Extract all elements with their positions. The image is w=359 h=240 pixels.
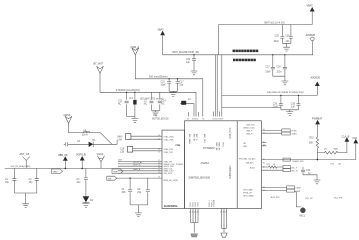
svg-text:NC: NC	[144, 103, 148, 105]
svg-text:24: 24	[158, 135, 160, 137]
svg-text:XIN_32/47: XIN_32/47	[164, 173, 173, 175]
wire VBAT upper rail riser	[218, 25, 220, 55]
svg-text:C16: C16	[161, 81, 166, 83]
svg-text:42: 42	[263, 141, 265, 143]
svg-text:C25: C25	[275, 36, 280, 38]
ground G7	[286, 112, 293, 116]
svg-text:LSBM: LSBM	[295, 188, 301, 190]
label R11	[267, 164, 277, 166]
ground G4	[191, 71, 198, 75]
svg-text:28: 28	[263, 187, 265, 189]
capacitor C28	[276, 54, 287, 76]
pin numbers bottom left	[189, 212, 199, 214]
svg-text:MIC_N: MIC_N	[292, 171, 299, 173]
capacitor C27	[265, 54, 275, 76]
ground G12 filled	[191, 234, 198, 237]
pin names xtal upper	[158, 135, 180, 147]
capacitor C14	[158, 92, 167, 110]
wire pi filter bottom	[14, 193, 36, 204]
wire left rail ANT y=168.4	[5, 167, 162, 169]
svg-text:C9: C9	[137, 189, 141, 191]
svg-text:C1E: C1E	[120, 149, 125, 151]
net box USB_N	[282, 132, 297, 136]
wire gnss feed	[69, 123, 101, 132]
resistor R10	[309, 124, 319, 159]
port VBAT2 pennant	[112, 169, 123, 173]
svg-text:15p: 15p	[5, 182, 10, 184]
svg-text:20: 20	[158, 172, 160, 174]
svg-text:CLOCKPLL: CLOCKPLL	[164, 204, 179, 208]
svg-text:C14: C14	[161, 100, 166, 102]
svg-text:C26: C26	[285, 36, 290, 38]
svg-text:VGPS_B: VGPS_B	[76, 154, 86, 157]
pin stub top C	[218, 112, 220, 117]
svg-text:VBAT: VBAT	[113, 170, 119, 173]
svg-text:MA_AD1: MA_AD1	[246, 161, 254, 164]
svg-text:22p: 22p	[137, 192, 142, 194]
svg-text:NC: NC	[118, 103, 122, 105]
pin names bottom rotated	[190, 199, 216, 207]
capacitor C25	[274, 25, 285, 44]
wire xtal caps join	[130, 205, 148, 213]
svg-text:35: 35	[202, 119, 204, 121]
svg-text:IOR: IOR	[353, 137, 358, 140]
svg-text:LNA: LNA	[118, 138, 123, 141]
ground G11	[314, 180, 321, 184]
ground G8	[22, 204, 29, 208]
svg-text:50Ω trace(50ohm): 50Ω trace(50ohm)	[149, 75, 168, 78]
svg-text:29: 29	[263, 190, 265, 192]
svg-text:36: 36	[263, 162, 265, 164]
svg-text:VBAT_BGA08(470nH_1R): VBAT_BGA08(470nH_1R)	[172, 51, 199, 54]
capacitor C29	[273, 95, 283, 109]
svg-text:BT_ANT: BT_ANT	[94, 63, 104, 66]
antenna ANT1 connector	[20, 153, 30, 168]
svg-text:VUSB: VUSB	[291, 131, 297, 133]
power flag VGPS	[76, 154, 86, 170]
inductor L13 dark	[126, 92, 137, 117]
svg-text:31: 31	[187, 119, 189, 121]
wire bottom right join	[222, 228, 227, 232]
inductor L3	[144, 92, 154, 110]
power flag VBAT top-left	[158, 28, 166, 35]
wire VBAT drop pin2	[216, 55, 218, 117]
svg-text:USB_OTG: USB_OTG	[230, 127, 232, 138]
crystal X2 box	[118, 134, 131, 142]
capacitor C11 xtal	[137, 178, 150, 205]
ground G5	[283, 47, 290, 51]
capacitor C26	[285, 25, 293, 44]
pin stubs nc rows	[243, 141, 267, 148]
wire l-c join	[151, 111, 159, 113]
svg-text:47: 47	[225, 212, 227, 214]
svg-text:21: 21	[158, 176, 160, 178]
svg-text:104: 104	[286, 41, 291, 43]
svg-text:C12: C12	[118, 100, 123, 102]
svg-text:USB_N: USB_N	[246, 133, 253, 135]
net box PWRKEY	[283, 158, 304, 163]
svg-text:AG01: AG01	[250, 166, 255, 169]
svg-text:MIC1: MIC1	[300, 216, 306, 218]
svg-text:XRST_B: XRST_B	[133, 165, 141, 167]
svg-text:VBAT: VBAT	[53, 170, 59, 173]
pin names pwr rows inside	[239, 157, 265, 169]
svg-text:ANT_D: ANT_D	[195, 134, 198, 141]
ground G13 open	[221, 233, 227, 237]
junction pwk	[317, 159, 319, 161]
wire vddext row y=152.2	[317, 142, 347, 154]
pin names usb inside	[243, 124, 265, 135]
net box MIC_P	[283, 166, 298, 170]
svg-text:MOT08_BGA18: MOT08_BGA18	[152, 117, 169, 120]
note text line1	[233, 50, 259, 53]
svg-text:POWER: POWER	[203, 146, 215, 150]
svg-text:L4: L4	[188, 99, 191, 101]
wire VBAT drop pin1	[215, 55, 217, 117]
svg-text:LTE: LTE	[153, 115, 158, 117]
svg-text:59: 59	[221, 119, 223, 121]
wire avdd28 rail y=95.4	[222, 86, 317, 95]
wire lte cap join	[127, 117, 135, 119]
svg-text:26: 26	[158, 149, 160, 151]
svg-text:L13: L13	[129, 98, 134, 100]
capacitor C10 xtal	[122, 177, 133, 204]
pin stubs bottom left group	[191, 208, 199, 222]
svg-text:C20: C20	[186, 59, 191, 61]
svg-text:XTAL_OW0: XTAL_OW0	[164, 135, 174, 138]
pin stub top A	[188, 112, 198, 117]
svg-text:XTAL_12B: XTAL_12B	[164, 151, 174, 154]
svg-text:20: 20	[263, 129, 265, 131]
svg-text:C30: C30	[291, 103, 296, 105]
svg-text:L2B: L2B	[120, 152, 125, 154]
svg-text:AG2_SPK: AG2_SPK	[271, 196, 280, 199]
capacitor C4 TVS branch	[77, 168, 88, 196]
svg-text:35: 35	[263, 159, 265, 161]
svg-text:VBAT: VBAT	[307, 5, 314, 8]
svg-text:ANT_1/8: ANT_1/8	[20, 153, 30, 156]
wire mic row	[262, 166, 284, 168]
svg-text:ANT_MAIN: ANT_MAIN	[188, 134, 191, 144]
wires clock rows	[118, 162, 162, 174]
svg-text:100n: 100n	[276, 72, 282, 74]
wire mic row N	[262, 169, 284, 171]
wire VBAT drop pin3	[221, 55, 223, 117]
wire gnss diagonal	[100, 133, 112, 145]
svg-text:33pF: 33pF	[161, 84, 167, 86]
clock pin names inside	[164, 160, 184, 175]
label R13 0R	[331, 164, 342, 166]
diode D2 TVS	[83, 196, 94, 202]
wire gnss lower y=144.3	[64, 140, 117, 144]
resistor labels 4K7	[324, 149, 339, 151]
svg-text:D1: D1	[93, 140, 97, 142]
svg-text:PWRBAT: PWRBAT	[312, 117, 323, 120]
antenna ANT3 BT/WIFI	[94, 63, 104, 74]
svg-text:X1: X1	[122, 189, 126, 191]
capacitor C12	[118, 92, 129, 116]
svg-text:D2: D2	[90, 200, 94, 202]
svg-text:40: 40	[263, 166, 265, 168]
power flag VBB	[58, 154, 68, 169]
svg-text:C32: C32	[306, 170, 311, 172]
svg-text:680R: 680R	[334, 149, 339, 151]
svg-text:C17: C17	[179, 81, 184, 83]
wire c29 c30 join	[281, 106, 299, 112]
power flag VBAT top-right	[307, 5, 315, 12]
power flag PWRBAT	[312, 117, 323, 124]
svg-text:1uF: 1uF	[186, 62, 191, 64]
svg-text:MIC_P: MIC_P	[292, 167, 299, 169]
wire USB row N	[262, 132, 282, 134]
antenna ANT2 GSM	[131, 46, 140, 55]
svg-text:VBAT in(3.1V~4.3V): VBAT in(3.1V~4.3V)	[264, 21, 285, 24]
net box USB_P	[282, 129, 297, 133]
capacitor C17	[175, 78, 184, 91]
svg-text:26M: 26M	[118, 160, 122, 162]
svg-text:PGM03_4/3V: PGM03_4/3V	[292, 161, 304, 163]
ground G2	[132, 119, 139, 123]
svg-text:MHX: MHX	[118, 136, 124, 138]
clock row labels	[118, 160, 142, 171]
svg-text:R10: R10	[310, 138, 315, 140]
pi filter left leg	[5, 168, 16, 193]
svg-text:22nH: 22nH	[82, 135, 88, 137]
svg-text:GNSS: GNSS	[64, 114, 71, 117]
svg-text:15p: 15p	[29, 182, 34, 184]
pi filter right leg	[29, 168, 39, 193]
wire avdd drop	[311, 41, 313, 55]
svg-text:50Ω_RF_BGA(COAX): 50Ω_RF_BGA(COAX)	[11, 165, 31, 168]
svg-text:L3: L3	[144, 100, 147, 102]
svg-text:56K: 56K	[309, 143, 314, 145]
svg-text:10uF: 10uF	[273, 106, 279, 108]
pin names audio inside	[243, 187, 265, 198]
wire c27 c28 join	[273, 76, 285, 81]
svg-text:1K: 1K	[273, 164, 276, 166]
svg-text:USB_P: USB_P	[246, 130, 253, 132]
svg-text:NC2_SPK: NC2_SPK	[334, 197, 343, 199]
svg-text:AVDD28: AVDD28	[306, 34, 316, 37]
pin names top-right group	[215, 142, 223, 151]
svg-text:C29: C29	[273, 103, 278, 105]
svg-text:AUDIO&ADC: AUDIO&ADC	[229, 165, 232, 179]
svg-text:AW6A: AW6A	[201, 161, 211, 165]
wire bottom left join	[191, 223, 199, 233]
svg-text:C4: C4	[77, 179, 81, 181]
svg-text:1uF: 1uF	[291, 106, 296, 108]
net box LS_M	[287, 186, 301, 190]
ground G1	[170, 93, 177, 97]
net box MIC_N	[283, 169, 298, 173]
svg-text:33p: 33p	[179, 84, 184, 86]
port VBAT pennant	[52, 169, 63, 173]
diode D1	[89, 140, 97, 147]
wire audio row2	[262, 190, 287, 192]
svg-text:33uF: 33uF	[265, 72, 271, 74]
svg-text:33uF: 33uF	[274, 41, 280, 43]
svg-text:VBAT: VBAT	[158, 28, 165, 31]
svg-text:C1: C1	[5, 179, 9, 181]
svg-text:44: 44	[197, 212, 199, 214]
capacitor C3 series	[66, 141, 81, 146]
crystal X3 box	[120, 147, 133, 154]
svg-text:ANT_GPS: ANT_GPS	[203, 134, 206, 144]
capacitor C30	[291, 95, 301, 109]
wire x3 pins	[133, 149, 162, 151]
svg-text:USBN: USBN	[291, 134, 297, 136]
pin numbers top edge	[187, 119, 223, 121]
svg-text:USB: USB	[243, 146, 248, 148]
svg-text:SIM7920_BGA200: SIM7920_BGA200	[189, 175, 211, 179]
svg-text:NC: NC	[161, 103, 165, 105]
ground G10	[135, 213, 142, 217]
wire lower rail y=107.4	[222, 106, 281, 108]
ground G6	[282, 81, 289, 85]
speaker MIC1	[294, 192, 305, 218]
pin stubs bottom right group	[222, 208, 227, 228]
ferrite bead FB1	[180, 99, 194, 117]
wire BT antenna stem	[99, 73, 101, 92]
wire USB row P	[262, 129, 282, 131]
svg-text:R15_NC: R15_NC	[306, 198, 314, 200]
ground G9 bar	[82, 202, 89, 207]
pin numbers bottom right	[220, 212, 227, 214]
svg-text:(cap close to module to reduce: (cap close to module to reduce imp)	[267, 91, 304, 94]
svg-text:25: 25	[158, 139, 160, 141]
svg-text:27: 27	[158, 151, 160, 153]
svg-text:R13: R13	[331, 164, 334, 166]
svg-text:10u: 10u	[77, 182, 82, 184]
svg-text:VGG3: VGG3	[97, 153, 104, 156]
svg-text:SPKN_UP: SPKN_UP	[243, 193, 253, 195]
module U1 clock box	[162, 130, 185, 208]
svg-text:GSM_A: GSM_A	[131, 46, 140, 49]
svg-text:C28: C28	[276, 67, 281, 69]
svg-text:VBB_U8: VBB_U8	[58, 154, 68, 157]
antenna ANT4 GPS	[97, 153, 105, 169]
ground G3	[152, 112, 159, 116]
svg-text:GND4: GND4	[198, 202, 200, 207]
wire 32k row	[117, 177, 162, 179]
svg-text:C27: C27	[265, 67, 270, 69]
svg-text:32K: 32K	[122, 192, 127, 194]
svg-text:GPIO_EAR: GPIO_EAR	[243, 188, 253, 191]
svg-text:GOGMA: GOGMA	[213, 199, 216, 207]
module U1 internal divider	[236, 121, 238, 209]
wire c25 c26 join	[282, 43, 291, 47]
svg-text:43: 43	[263, 145, 265, 147]
capacitor C20	[186, 54, 196, 71]
port 32K pennant	[107, 176, 117, 180]
svg-text:XTAL_OW1: XTAL_OW1	[164, 138, 174, 141]
port AVDD28 circle	[306, 34, 316, 41]
wire VBAT upper rail y=24.5	[219, 12, 313, 25]
power flag IOR	[353, 137, 359, 160]
wire x2 pins	[131, 136, 162, 139]
svg-text:MDM_BK_32K02: MDM_BK_32K02	[164, 180, 179, 182]
svg-text:21: 21	[263, 132, 265, 134]
power flag VDD_EXT	[342, 135, 350, 141]
svg-text:R11: R11	[267, 164, 270, 166]
svg-text:AVDD28: AVDD28	[311, 77, 321, 80]
svg-text:RTE_BAT_TA_ADC: RTE_BAT_TA_ADC	[239, 157, 256, 160]
svg-text:34: 34	[196, 119, 198, 121]
svg-text:VBAT_A: VBAT_A	[133, 168, 141, 171]
wire VBAT rail y=54.8	[163, 35, 313, 55]
pin stub top B	[213, 112, 215, 117]
svg-text:0R: 0R	[339, 164, 342, 166]
svg-text:C1A_B: C1A_B	[342, 135, 350, 138]
svg-text:GPIO_RBAT: GPIO_RBAT	[243, 195, 255, 198]
inductor L2	[82, 130, 90, 137]
svg-text:C3: C3	[77, 141, 81, 143]
wire LTE main y=92.3	[100, 92, 196, 116]
capacitor C16	[161, 78, 172, 91]
wire PWRKEY row	[262, 159, 356, 161]
svg-text:USBDC_VDD: USBDC_VDD	[243, 128, 255, 130]
svg-text:VRTC: VRTC	[221, 142, 223, 148]
pin names xtal lower	[158, 148, 173, 154]
capacitor C32	[301, 167, 317, 180]
wire audio row1	[262, 186, 287, 188]
svg-text:PPB: PPB	[176, 145, 181, 147]
svg-text:UB: UB	[243, 143, 246, 145]
clock pin numbers	[158, 160, 160, 174]
svg-text:VBAT_RF: VBAT_RF	[217, 142, 220, 151]
svg-text:4K7: 4K7	[324, 149, 327, 151]
power flag AVDD28 right	[311, 77, 321, 86]
net box LS_P	[287, 189, 301, 193]
antenna ANT5 GNSS	[64, 114, 72, 123]
module U1 main box	[185, 121, 262, 209]
svg-text:C2: C2	[29, 179, 33, 181]
svg-text:(LTE)50Ω trace(50ohm): (LTE)50Ω trace(50ohm)	[116, 89, 140, 92]
note text line2	[233, 59, 256, 62]
wire cap join	[169, 91, 177, 92]
svg-text:XTAL_12M: XTAL_12M	[164, 148, 174, 151]
pin names top-left group	[188, 134, 206, 144]
wire GSM feed y=78.8	[135, 55, 203, 117]
svg-text:USB_VDD: USB_VDD	[246, 124, 256, 126]
